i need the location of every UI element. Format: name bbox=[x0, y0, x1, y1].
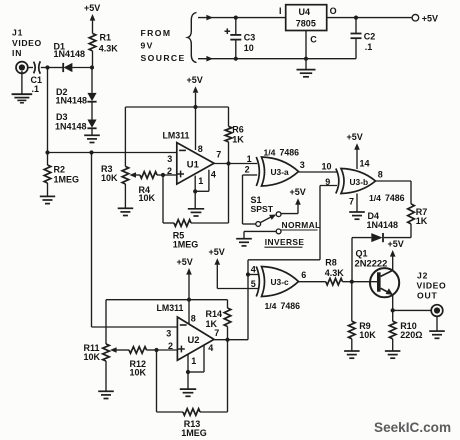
svg-text:O: O bbox=[330, 6, 337, 16]
svg-text:U4: U4 bbox=[299, 7, 311, 17]
label 1/4 7486 U3-c bbox=[265, 301, 301, 311]
power +5V at U3-b pin 14 bbox=[347, 132, 363, 169]
svg-text:4: 4 bbox=[251, 265, 256, 275]
svg-text:+5V: +5V bbox=[209, 247, 225, 257]
node C2 top junction bbox=[354, 16, 358, 20]
label pin I U4 bbox=[279, 6, 282, 16]
resistor R5 feedback bbox=[163, 164, 229, 227]
label D1 1N4148 bbox=[54, 41, 86, 59]
capacitor C1 bbox=[34, 61, 41, 74]
svg-text:+5V: +5V bbox=[187, 75, 203, 85]
power +5V at Q1 bbox=[388, 239, 404, 271]
resistor R12 bbox=[120, 347, 157, 354]
svg-text:U3-b: U3-b bbox=[350, 177, 369, 187]
svg-text:U2: U2 bbox=[188, 334, 200, 345]
svg-text:10K: 10K bbox=[101, 173, 118, 183]
svg-text:1/4: 1/4 bbox=[265, 301, 277, 311]
label pin O U4 bbox=[330, 6, 337, 16]
svg-text:7486: 7486 bbox=[385, 193, 405, 203]
svg-text:1/4: 1/4 bbox=[264, 148, 276, 158]
watermark SeekIC.com bbox=[374, 420, 451, 435]
diode D3 bbox=[87, 120, 96, 129]
xor gate U3-b bbox=[336, 169, 376, 194]
label 1/4 7486 U3-a bbox=[264, 148, 300, 158]
label pin 6 U3-c bbox=[301, 270, 306, 280]
svg-text:U3-a: U3-a bbox=[271, 167, 289, 177]
ground at S1 bbox=[236, 239, 252, 246]
svg-text:8: 8 bbox=[191, 313, 196, 323]
op-amp U2 LM311 bbox=[177, 317, 214, 360]
ground at U2 bbox=[180, 372, 196, 396]
resistor R9 bbox=[349, 282, 356, 351]
svg-text:LM311: LM311 bbox=[157, 303, 184, 313]
wire +5V rail to R3/R6 bbox=[125, 107, 228, 166]
label R12 10K bbox=[130, 359, 147, 377]
svg-text:3: 3 bbox=[166, 328, 171, 338]
label R11 10K bbox=[84, 343, 101, 362]
wire D1 to node B bbox=[72, 67, 92, 69]
label LM311 U1 bbox=[163, 130, 190, 140]
svg-text:7805: 7805 bbox=[296, 19, 316, 29]
resistor R10 bbox=[389, 310, 396, 350]
label J1 VIDEO IN bbox=[12, 28, 42, 59]
label U3-a bbox=[271, 167, 289, 177]
label pin 7 U1 bbox=[216, 150, 221, 160]
svg-text:+5V: +5V bbox=[177, 257, 193, 267]
svg-text:LM311: LM311 bbox=[163, 130, 190, 140]
svg-text:1MEG: 1MEG bbox=[181, 428, 207, 438]
label +5V output bbox=[422, 13, 438, 23]
label C3 10 bbox=[244, 32, 256, 52]
node video-R2 junction bbox=[45, 150, 49, 154]
svg-text:C2: C2 bbox=[364, 31, 376, 41]
ground at J2 bbox=[429, 316, 445, 338]
svg-text:U1: U1 bbox=[187, 159, 199, 170]
svg-text:2N2222: 2N2222 bbox=[355, 257, 388, 268]
svg-text:6: 6 bbox=[301, 270, 306, 280]
node C3 top junction bbox=[234, 16, 238, 20]
svg-text:10: 10 bbox=[322, 162, 332, 172]
svg-text:1MEG: 1MEG bbox=[54, 174, 80, 184]
node U2 output junction bbox=[225, 338, 229, 342]
wire U2 +5V rail bbox=[106, 300, 228, 344]
svg-text:OUT: OUT bbox=[417, 291, 438, 301]
label R3 10K bbox=[101, 164, 118, 183]
label J2 VIDEO OUT bbox=[417, 271, 447, 301]
label R7 1K bbox=[416, 207, 428, 226]
svg-text:1MEG: 1MEG bbox=[173, 239, 199, 249]
label U3-c bbox=[271, 277, 289, 287]
svg-text:IN: IN bbox=[12, 48, 22, 58]
capacitor C3 bbox=[225, 18, 242, 59]
svg-text:1K: 1K bbox=[206, 319, 218, 329]
svg-text:4.3K: 4.3K bbox=[325, 268, 345, 278]
svg-text:1: 1 bbox=[247, 154, 252, 164]
svg-text:NORMAL: NORMAL bbox=[282, 220, 321, 230]
wire U3-b pin 9 route bbox=[248, 186, 337, 340]
svg-text:SPST: SPST bbox=[251, 204, 274, 214]
power +5V at R1 bbox=[84, 3, 100, 20]
ground at R2 bbox=[40, 196, 55, 203]
svg-text:R14: R14 bbox=[206, 309, 223, 319]
resistor R4 bbox=[140, 172, 163, 179]
wire node B to D2 bbox=[91, 68, 93, 93]
label LM311 U2 bbox=[157, 303, 184, 313]
svg-text:FROM: FROM bbox=[141, 28, 172, 38]
pin 1-4 loop U1 bbox=[193, 170, 216, 194]
power +5V at U3-c pin 5 bbox=[209, 247, 259, 288]
xor gate U3-a bbox=[256, 157, 298, 186]
ground at R11 bbox=[98, 391, 114, 398]
ground at U1 bbox=[188, 191, 204, 216]
label pin 2 U1 bbox=[167, 166, 172, 176]
wire Q1 to J2 bbox=[393, 309, 432, 311]
label U3-b bbox=[350, 177, 369, 187]
svg-text:R1: R1 bbox=[100, 33, 112, 43]
ground at U4 bbox=[297, 59, 316, 77]
ground at U3-b bbox=[349, 212, 365, 219]
power +5V at U1 bbox=[187, 75, 203, 93]
wire R12 to U2 pin 2 bbox=[157, 349, 178, 351]
svg-text:7: 7 bbox=[216, 150, 221, 160]
wire node A to D1 bbox=[48, 67, 64, 69]
svg-text:1N4148: 1N4148 bbox=[56, 95, 88, 105]
svg-text:10K: 10K bbox=[84, 352, 101, 362]
node U1 pin2 junction bbox=[161, 173, 165, 177]
svg-text:.1: .1 bbox=[365, 42, 373, 52]
svg-text:C3: C3 bbox=[244, 32, 256, 42]
label pin 2 U3-a bbox=[245, 165, 250, 175]
label D3 1N4148 bbox=[55, 112, 87, 131]
resistor R2 bbox=[44, 153, 51, 197]
wire U3-c pin 4 bbox=[248, 274, 258, 276]
diode D1 bbox=[63, 63, 72, 72]
svg-text:5: 5 bbox=[251, 279, 256, 289]
svg-text:I: I bbox=[279, 6, 282, 16]
svg-text:1K: 1K bbox=[232, 134, 244, 144]
svg-text:3: 3 bbox=[300, 160, 305, 170]
wire C1 to node A bbox=[41, 67, 48, 69]
wire U3-c output bbox=[299, 281, 326, 283]
pin 1-4 loop U2 bbox=[186, 343, 213, 374]
connector J1 phono jack bbox=[16, 62, 28, 74]
wire U4 C pin bbox=[305, 31, 307, 59]
label R13 1MEG bbox=[181, 419, 207, 438]
label pin 3 U1 bbox=[167, 154, 172, 164]
svg-text:1K: 1K bbox=[416, 216, 428, 226]
wire 9V top rail bbox=[198, 15, 286, 21]
wire U4 output rail bbox=[327, 17, 412, 19]
potentiometer R3 bbox=[122, 166, 140, 208]
label pin 5 U3-c bbox=[251, 279, 256, 289]
wire 9V bottom rail bbox=[198, 56, 356, 62]
wire +5V to U1 pin 8 bbox=[195, 93, 197, 150]
label R1 4.3K bbox=[99, 33, 119, 54]
xor gate U3-c bbox=[256, 267, 298, 297]
label D2 1N4148 bbox=[56, 87, 88, 105]
svg-text:R6: R6 bbox=[232, 124, 244, 134]
label C2 .1 bbox=[364, 31, 376, 51]
label U1 bbox=[187, 159, 199, 170]
svg-text:VIDEO: VIDEO bbox=[12, 38, 42, 48]
svg-text:C: C bbox=[310, 35, 317, 45]
connector J2 phono jack bbox=[431, 305, 443, 317]
wire video to U2 pin 3 bbox=[92, 326, 178, 328]
node video-U2 junction bbox=[89, 150, 93, 154]
switch S1 bbox=[243, 212, 282, 234]
svg-text:1N4148: 1N4148 bbox=[367, 220, 399, 230]
label pin 3 U3-a bbox=[300, 160, 305, 170]
label pin 3 U2 bbox=[166, 328, 171, 338]
label pin 2 U2 bbox=[168, 341, 173, 351]
node U4 ground junction bbox=[304, 57, 308, 61]
node U1 output junction bbox=[226, 161, 230, 165]
svg-text:1/4: 1/4 bbox=[369, 193, 381, 203]
svg-text:.1: .1 bbox=[32, 84, 40, 94]
wire U3-a to U3-b bbox=[299, 171, 338, 173]
wire R4 to U1 pin 2 bbox=[163, 174, 177, 176]
svg-text:10K: 10K bbox=[359, 330, 376, 340]
diode D2 bbox=[87, 93, 96, 102]
svg-text:4.3K: 4.3K bbox=[99, 43, 119, 53]
label R9 10K bbox=[359, 321, 376, 340]
svg-text:220Ω: 220Ω bbox=[400, 330, 422, 340]
svg-text:VIDEO: VIDEO bbox=[417, 281, 447, 291]
label pin 7 U2 bbox=[214, 328, 219, 338]
resistor R6 bbox=[225, 107, 232, 164]
label D4 1N4148 bbox=[367, 211, 399, 230]
svg-text:7486: 7486 bbox=[280, 148, 300, 158]
label pin 4 U3-c bbox=[251, 265, 256, 275]
node U3-c pin 4 junction bbox=[246, 272, 250, 276]
label INVERSE bbox=[264, 237, 304, 247]
label pin 9 U3-b bbox=[325, 177, 330, 187]
svg-text:+5V: +5V bbox=[388, 239, 404, 249]
node B junction bbox=[90, 65, 94, 69]
svg-text:2: 2 bbox=[168, 341, 173, 351]
label pin 1 U3-a bbox=[247, 154, 252, 164]
svg-text:2: 2 bbox=[245, 165, 250, 175]
label FROM 9V SOURCE bbox=[141, 28, 186, 63]
label R5 1MEG bbox=[173, 231, 199, 250]
svg-text:7: 7 bbox=[214, 328, 219, 338]
resistor R8 bbox=[326, 278, 352, 285]
label NORMAL bbox=[281, 220, 321, 230]
diode D4 bbox=[352, 233, 411, 242]
wire U2 output bbox=[214, 339, 248, 341]
wire J1 to C1 bbox=[28, 67, 33, 69]
regulator U4 7805 bbox=[286, 5, 327, 31]
svg-text:SeekIC.com: SeekIC.com bbox=[374, 420, 451, 435]
label pin 10 U3-b bbox=[322, 162, 332, 172]
wire U1 output bbox=[214, 163, 257, 165]
svg-text:3: 3 bbox=[167, 154, 172, 164]
resistor R13 feedback bbox=[157, 340, 228, 416]
label R10 220ohm bbox=[400, 321, 422, 340]
wire node A down bbox=[47, 68, 49, 153]
label R8 4.3K bbox=[325, 257, 345, 277]
label pin 14 U3-b bbox=[360, 159, 370, 169]
svg-text:4: 4 bbox=[211, 170, 216, 180]
svg-text:1: 1 bbox=[191, 356, 196, 366]
resistor R7 bbox=[408, 204, 415, 238]
svg-text:J2: J2 bbox=[417, 271, 428, 281]
ground at R10 bbox=[385, 351, 401, 358]
wire INVERSE contact bbox=[244, 231, 276, 238]
label pin 7 U3-b bbox=[349, 196, 354, 206]
capacitor C2 bbox=[351, 18, 362, 59]
label R4 10K bbox=[139, 185, 156, 203]
label 1/4 7486 U3-b bbox=[369, 193, 405, 203]
svg-text:J1: J1 bbox=[12, 28, 23, 38]
svg-text:7486: 7486 bbox=[281, 301, 301, 311]
wire D2 to D3 bbox=[91, 102, 93, 120]
svg-text:10K: 10K bbox=[139, 193, 156, 203]
svg-text:1N4148: 1N4148 bbox=[54, 49, 86, 59]
node U2 pin2 junction bbox=[154, 348, 158, 352]
node +5V U1 junction bbox=[193, 105, 197, 109]
label R14 1K bbox=[206, 309, 223, 329]
brace 9V source bbox=[188, 13, 197, 63]
label S1 SPST bbox=[251, 195, 274, 214]
node A junction bbox=[45, 65, 49, 69]
ground at R3 bbox=[118, 208, 134, 215]
svg-text:2: 2 bbox=[167, 166, 172, 176]
label C1 .1 bbox=[31, 75, 43, 94]
wire video to U2 vertical bbox=[91, 153, 93, 328]
label pin 8 U3-b bbox=[378, 169, 383, 179]
svg-text:+5V: +5V bbox=[290, 187, 306, 197]
label pin C U4 bbox=[310, 35, 317, 45]
wire video node line bbox=[48, 152, 177, 154]
node Q1 base junction bbox=[350, 280, 354, 284]
svg-text:1: 1 bbox=[198, 176, 203, 186]
svg-text:R8: R8 bbox=[325, 257, 337, 267]
svg-text:9V: 9V bbox=[141, 41, 154, 51]
svg-text:4: 4 bbox=[208, 343, 213, 353]
svg-text:7: 7 bbox=[349, 196, 354, 206]
svg-text:8: 8 bbox=[378, 169, 383, 179]
op-amp U1 LM311 bbox=[177, 143, 214, 185]
label R6 1K bbox=[232, 124, 244, 144]
svg-text:INVERSE: INVERSE bbox=[265, 237, 305, 247]
ground at D3 bbox=[84, 129, 100, 143]
svg-text:10K: 10K bbox=[130, 367, 147, 377]
node +5V U2 junction bbox=[187, 298, 191, 302]
svg-text:1N4148: 1N4148 bbox=[55, 122, 87, 132]
potentiometer R11 bbox=[103, 344, 120, 391]
node Q1 emitter junction bbox=[391, 308, 395, 312]
wire D4 to Q1 base node bbox=[351, 238, 353, 282]
svg-text:+5V: +5V bbox=[84, 3, 100, 13]
svg-text:8: 8 bbox=[198, 144, 203, 154]
wire U3-a pin 2 bbox=[243, 175, 258, 224]
ground at R9 bbox=[344, 351, 360, 358]
wire U3-b output bbox=[376, 181, 412, 204]
label pin 8 U1 bbox=[198, 144, 203, 154]
label R2 1MEG bbox=[54, 164, 80, 184]
transistor Q1 bbox=[352, 268, 399, 310]
svg-text:14: 14 bbox=[360, 159, 370, 169]
svg-text:+5V: +5V bbox=[347, 132, 363, 142]
resistor R1 bbox=[89, 20, 96, 67]
label U2 bbox=[188, 334, 200, 345]
power +5V at U2 bbox=[177, 257, 193, 324]
svg-text:U3-c: U3-c bbox=[271, 277, 289, 287]
wire U3-b pin 7 ground stem bbox=[356, 194, 358, 212]
svg-text:R2: R2 bbox=[54, 164, 66, 174]
label Q1 2N2222 bbox=[355, 249, 388, 269]
svg-text:10: 10 bbox=[244, 43, 254, 53]
resistor R14 bbox=[224, 300, 231, 340]
svg-text:+5V: +5V bbox=[422, 13, 438, 23]
power +5V at switch bbox=[281, 187, 306, 213]
node C3 bottom junction bbox=[234, 57, 238, 61]
terminal +5V output bbox=[412, 14, 419, 21]
ground at J1 bbox=[12, 71, 33, 103]
svg-text:SOURCE: SOURCE bbox=[141, 53, 186, 63]
label pin 8 U2 bbox=[191, 313, 196, 323]
